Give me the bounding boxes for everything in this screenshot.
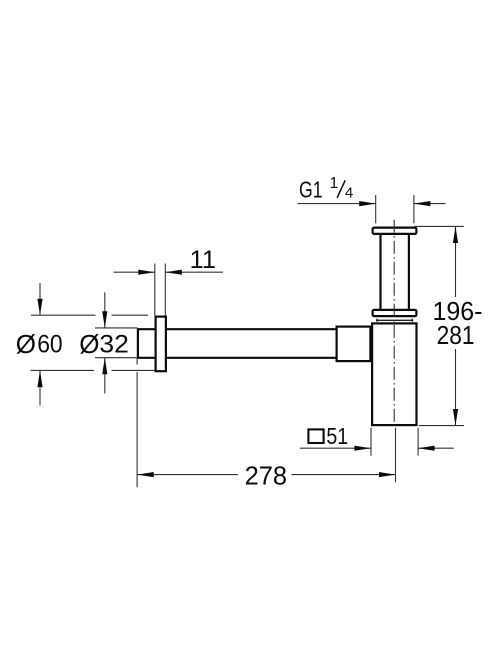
gasket ring between nut and body bbox=[376, 319, 413, 322]
G1 1/4 dimension leader and arrows bbox=[298, 203, 446, 205]
278 extension lines bbox=[137, 358, 395, 487]
horizontal inlet tube (Ø32) bbox=[137, 328, 337, 358]
196-281 extension lines bbox=[414, 226, 464, 425]
trap body (square 51) bbox=[372, 323, 416, 425]
dia60 extension lines bbox=[31, 315, 155, 370]
dia32 extension lines bbox=[95, 328, 138, 358]
svg-text:51: 51 bbox=[326, 423, 348, 449]
inlet boss on trap body bbox=[337, 327, 371, 362]
G1 1/4 extension lines bbox=[376, 195, 414, 223]
svg-text:11: 11 bbox=[190, 246, 216, 274]
svg-text:278: 278 bbox=[245, 461, 288, 491]
svg-text:281: 281 bbox=[437, 320, 475, 350]
dia32 dimension arrows bbox=[104, 292, 106, 393]
vertical centerline (dash-dot) bbox=[393, 220, 395, 426]
11 dimension lines and arrows bbox=[114, 271, 224, 273]
svg-text:32: 32 bbox=[99, 332, 128, 359]
top coupling nut flange bbox=[373, 228, 417, 234]
196-281 dimension line and arrows bbox=[455, 227, 457, 425]
svg-text:1: 1 bbox=[330, 175, 339, 192]
11 extension lines bbox=[155, 264, 166, 316]
dia60 dimension arrows bbox=[39, 283, 41, 406]
svg-text:60: 60 bbox=[37, 332, 63, 359]
svg-text:Ø: Ø bbox=[16, 329, 36, 359]
278 dimension line and arrows bbox=[137, 474, 395, 476]
svg-text:Ø: Ø bbox=[79, 329, 99, 359]
square-51 extension lines bbox=[371, 428, 418, 456]
vertical outlet pipe bbox=[381, 234, 409, 311]
bottom coupling nut flange bbox=[373, 310, 417, 316]
square symbol bbox=[308, 429, 323, 443]
svg-text:4: 4 bbox=[345, 185, 353, 202]
svg-text:G1: G1 bbox=[299, 177, 323, 203]
wall flange (Ø60 rosette) bbox=[156, 317, 166, 372]
square-51 dimension lines and arrows bbox=[300, 447, 454, 449]
